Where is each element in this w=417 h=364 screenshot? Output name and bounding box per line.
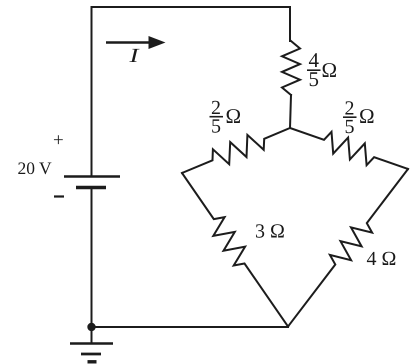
resistor R4 (3 ohm)	[182, 173, 288, 327]
svg-text:5: 5	[211, 116, 221, 138]
resistor R2 (left 2/5 ohm)	[182, 128, 290, 173]
svg-text:3 Ω: 3 Ω	[255, 221, 285, 243]
label right 2/5 ohm	[343, 98, 375, 139]
ground	[70, 327, 113, 362]
node junction dot	[87, 323, 95, 331]
battery V1 plate long (+)	[64, 175, 120, 177]
svg-text:20 V: 20 V	[18, 158, 53, 178]
current arrow I	[106, 36, 166, 67]
svg-text:Ω: Ω	[226, 104, 242, 128]
svg-text:Ω: Ω	[322, 58, 338, 82]
svg-text:Ω: Ω	[359, 104, 375, 128]
svg-text:4 Ω: 4 Ω	[367, 248, 397, 270]
svg-text:5: 5	[345, 116, 355, 138]
wire battery negative to node	[91, 188, 93, 328]
label 4/5 ohm	[307, 48, 337, 91]
resistor R1 (4/5 ohm)	[282, 41, 300, 95]
svg-text:I: I	[128, 45, 140, 67]
wire top	[92, 7, 291, 176]
resistor R5 (4 ohm)	[288, 169, 408, 327]
wire bottom	[92, 326, 289, 328]
label -	[54, 195, 64, 197]
resistor R3 (right 2/5 ohm)	[290, 128, 408, 169]
svg-text:+: +	[53, 130, 64, 151]
label left 2/5 ohm	[210, 97, 242, 138]
battery V1 plate short (-)	[76, 186, 106, 189]
svg-text:5: 5	[309, 67, 320, 91]
wire resistor R1 to node	[290, 95, 291, 128]
